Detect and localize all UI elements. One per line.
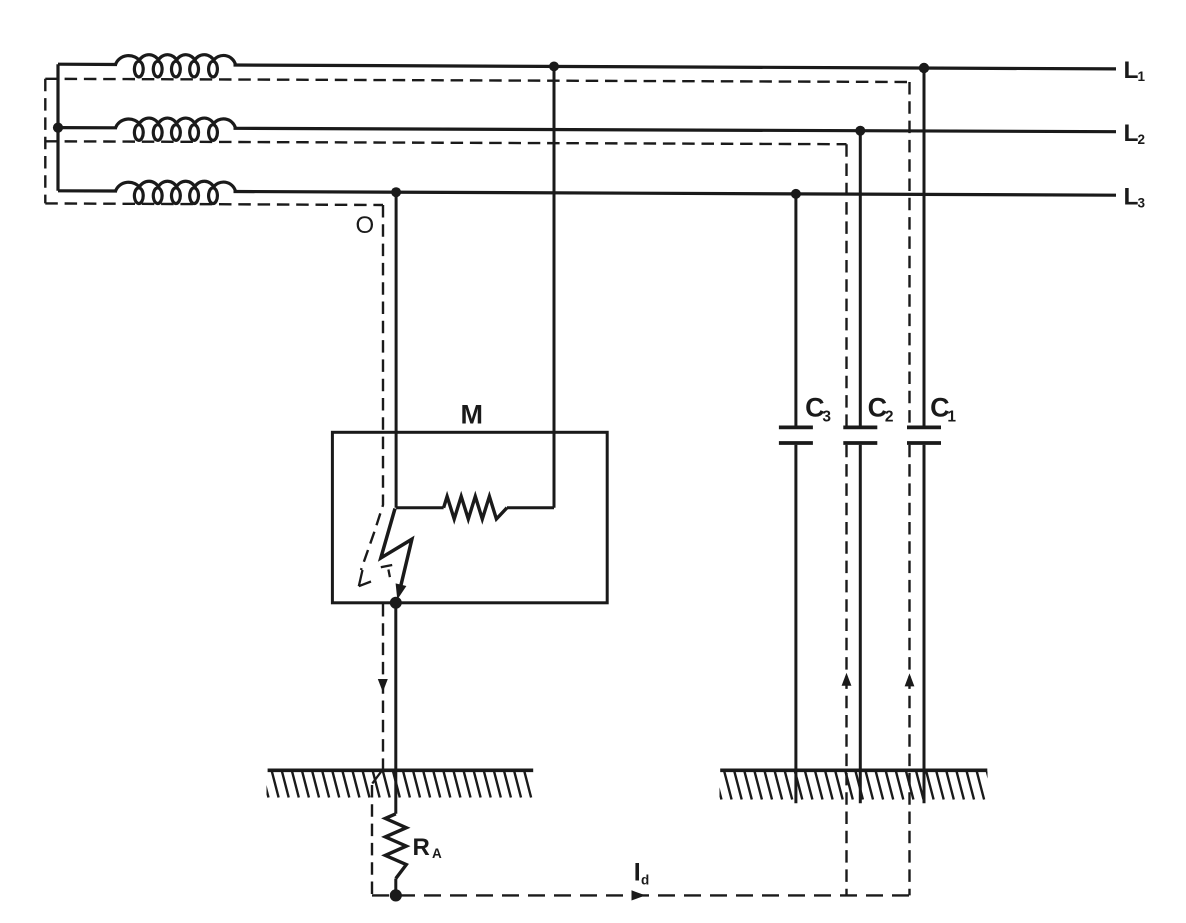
- resistor RA (earthing resistance): [385, 814, 406, 879]
- ground earth surface (left, under motor earth): [268, 768, 534, 772]
- node junction C1 on L1: [919, 63, 929, 73]
- wire transformer star-point vertical: [56, 64, 59, 191]
- wire dashed fault current path: below L2: [45, 141, 846, 144]
- svg-text:L: L: [1124, 120, 1139, 147]
- svg-text:2: 2: [1138, 132, 1146, 147]
- wire L2 main run: [234, 128, 1117, 131]
- svg-text:2: 2: [885, 409, 894, 426]
- capacitor C2 (line-to-earth capacitance): [859, 131, 862, 426]
- arrow fault current downward (to earth): [378, 679, 388, 692]
- ground earth surface (right, under capacitances): [720, 768, 987, 772]
- wire dashed return up through C1: [908, 82, 910, 427]
- ghost bolt fragment dashes: [381, 565, 392, 577]
- inductor winding on L2 (transformer secondary): [116, 118, 236, 140]
- wire dashed fault current path: below L1: [45, 79, 909, 82]
- arrow return current up through C2: [842, 673, 852, 686]
- wire dashed fault current path: left vertical at star point: [44, 79, 46, 204]
- node junction L1 / motor feed: [549, 62, 559, 72]
- node star point junction on L2: [53, 123, 63, 133]
- svg-text:M: M: [461, 400, 484, 430]
- wire dashed return up through C2: [845, 144, 847, 426]
- wire dashed path down to fault (node O branch): [361, 205, 383, 570]
- wire L2 left lead: [58, 126, 117, 129]
- svg-text:L: L: [1124, 57, 1139, 84]
- wire dashed fault current path: below L3: [45, 203, 383, 205]
- wire L1 main run: [234, 65, 1117, 69]
- wire RA to bottom node: [394, 879, 397, 896]
- svg-text:3: 3: [1138, 196, 1146, 211]
- svg-text:I: I: [634, 859, 641, 887]
- capacitor C3 (line-to-earth capacitance): [794, 194, 797, 426]
- svg-text:1: 1: [1138, 69, 1146, 84]
- wire dashed path motor frame to ground: [382, 604, 384, 769]
- node fault point at motor frame: [390, 597, 402, 609]
- wire motor feed from L1: [553, 66, 556, 507]
- wire dashed jog across ground line: [372, 770, 382, 784]
- wire motor frame to earth electrode: [394, 603, 397, 814]
- arrow Id direction right: [632, 890, 646, 900]
- wire L3 main run: [234, 192, 1117, 196]
- ghost bolt open arrowhead (dashed fault arrow): [359, 570, 371, 586]
- capacitor C1 (line-to-earth capacitance): [923, 68, 926, 426]
- inductor winding on L1 (transformer secondary): [116, 55, 236, 77]
- wire L3 left lead: [58, 189, 117, 192]
- wire L1 left lead: [58, 63, 117, 67]
- motor M enclosure box: [332, 432, 607, 603]
- wire dashed path below ground to RA bottom: [371, 785, 373, 895]
- svg-text:A: A: [432, 846, 442, 861]
- svg-text:3: 3: [822, 409, 831, 426]
- wire motor feed from L3: [395, 192, 398, 508]
- fault lightning bolt (winding earth fault): [381, 509, 412, 586]
- node junction C3 on L3: [791, 189, 801, 199]
- wire dashed bottom return path Id: [372, 894, 910, 896]
- svg-text:L: L: [1124, 184, 1139, 211]
- svg-text:d: d: [641, 872, 649, 887]
- node bottom of RA: [390, 889, 402, 901]
- arrow return current up through C1: [905, 673, 915, 686]
- node junction C2 on L2: [855, 126, 865, 136]
- svg-text:R: R: [413, 834, 430, 861]
- svg-text:O: O: [356, 212, 375, 239]
- svg-text:1: 1: [947, 409, 956, 426]
- inductor winding on L3 (transformer secondary): [116, 181, 236, 203]
- resistor motor winding: [444, 496, 507, 519]
- node junction L3 / motor feed: [391, 187, 401, 197]
